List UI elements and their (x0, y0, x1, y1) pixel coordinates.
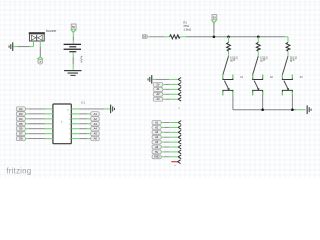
IC right pin 16 (71, 108, 79, 110)
IC U1 body (53, 104, 71, 144)
wire J1 pin 5 (161, 141, 164, 143)
wire J2 pin 4 (163, 93, 166, 95)
svg-text:D3: D3 (19, 112, 23, 116)
svg-text:GND: GND (154, 156, 160, 159)
wire switch down (291, 95, 293, 109)
bottom rail (233, 109, 296, 111)
wire J2 pin 2 (163, 83, 166, 85)
IC left pin 6 (45, 133, 53, 135)
ground GND5 (307, 105, 312, 114)
wire to label A3 (79, 123, 87, 125)
net label D7 (16, 132, 25, 136)
wire to label A4 (79, 128, 87, 130)
net node under buzzer (37, 57, 43, 64)
resistor R3 (256, 42, 260, 51)
svg-text:5V: 5V (213, 15, 216, 19)
ground GND4 (148, 75, 153, 84)
rail segments (214, 36, 229, 38)
svg-text:5V: 5V (72, 25, 75, 29)
IC right pin row 3 (71, 118, 79, 120)
net label D6 (16, 127, 25, 131)
net label A6 column B (152, 145, 161, 149)
svg-text:15: 15 (69, 114, 71, 116)
svg-text:IC1: IC1 (81, 100, 86, 104)
svg-text:10: 10 (69, 139, 71, 141)
IC left pin 5 (45, 128, 53, 130)
wire to label A1 (79, 113, 87, 115)
buzzer pin 1 (33, 41, 35, 47)
svg-text:220Ω: 220Ω (289, 56, 292, 62)
net label 5V column A (153, 82, 163, 86)
svg-text:J2: J2 (178, 108, 181, 110)
wire J1 pin 7 (161, 151, 164, 153)
resistor R1 (170, 35, 180, 39)
wire J1 pin 1 (161, 122, 164, 124)
net label A1 column A (153, 87, 163, 91)
wire power to battery (72, 32, 74, 36)
wire ground to buzzer (13, 46, 17, 48)
wire R1 to rail (180, 36, 186, 38)
R4 value labels (rotated) (289, 56, 297, 62)
pushbutton S2 (253, 56, 263, 95)
wire to label D6 (28, 128, 45, 130)
net label A2 column B (152, 125, 161, 129)
wire switch down (232, 95, 234, 109)
svg-text:13: 13 (69, 124, 71, 126)
svg-text:12: 12 (69, 129, 71, 131)
net label A6 (91, 136, 99, 140)
svg-text:D5: D5 (19, 122, 23, 126)
svg-text:D2: D2 (19, 107, 23, 111)
svg-text:buzzer: buzzer (46, 29, 57, 33)
svg-text:5V: 5V (155, 151, 158, 154)
IC left pin 2 (45, 113, 53, 115)
svg-text:S2: S2 (270, 76, 274, 79)
net label D4 (16, 117, 25, 121)
svg-text:A1: A1 (94, 112, 98, 116)
battery BT1 (64, 44, 81, 53)
wire to label D2 (28, 108, 45, 110)
junction bottom branch 3 (291, 108, 294, 111)
svg-text:D8: D8 (19, 137, 23, 141)
net label D2 (16, 107, 25, 111)
net label D8 (16, 137, 25, 141)
wire resistor to switch (287, 51, 289, 56)
net label D3 (16, 112, 25, 116)
net label A1 column B (152, 121, 161, 125)
wire resistor to switch (228, 51, 230, 56)
svg-text:D7: D7 (19, 132, 23, 136)
ground GND3 (110, 105, 115, 114)
power label 5V battery top (71, 24, 76, 32)
svg-text:A3: A3 (94, 122, 98, 126)
svg-text:11: 11 (69, 134, 71, 136)
wire switch down (262, 95, 264, 109)
net label A3 (91, 122, 99, 126)
IC right pin row 6 (71, 133, 79, 135)
pushbutton S1 (223, 56, 233, 95)
svg-text:A6: A6 (94, 137, 98, 141)
wire to label D5 (28, 123, 45, 125)
R3 value labels (rotated) (259, 56, 267, 62)
wire power down to rail (213, 23, 215, 33)
net label A5 (91, 131, 99, 135)
junction bottom branch 2 (261, 108, 264, 111)
svg-text:A2: A2 (94, 117, 98, 121)
wire to label A2 (79, 118, 87, 120)
svg-text:fritzing: fritzing (6, 167, 31, 176)
R2 value labels (rotated) (230, 56, 238, 62)
wire J1 pin 6 (161, 146, 164, 148)
IC right pin row 4 (71, 123, 79, 125)
svg-text:4xAA: 4xAA (80, 56, 84, 63)
wire buzzer pin2 down (39, 47, 41, 57)
resistor R2 (227, 42, 231, 51)
branch 2: wire rail to resistor (257, 37, 259, 43)
svg-text:220Ω: 220Ω (259, 56, 262, 62)
net label A3 column B (152, 130, 161, 134)
resistor R4 (286, 42, 290, 51)
wire battery to ground (72, 52, 74, 56)
power 5V top (212, 15, 217, 23)
IC left pin 3 (45, 118, 53, 120)
ground GND1 (9, 42, 14, 51)
IC right pin row 5 (71, 128, 79, 130)
net label A4 (91, 127, 99, 131)
wire J1 pin 2 (161, 126, 164, 128)
net label 5V column B (152, 150, 161, 154)
wire J1 pin 8 (161, 156, 164, 158)
svg-text:S1: S1 (240, 76, 244, 79)
svg-text:5V: 5V (156, 83, 159, 86)
wire to label D8 (28, 138, 45, 140)
svg-text:J1: J1 (174, 165, 177, 167)
net label A3 column A (153, 97, 163, 101)
ground GND2 under battery (64, 70, 81, 76)
wire to label D3 (28, 113, 45, 115)
junction branch 1 (227, 36, 230, 39)
net label D5 (16, 122, 25, 126)
svg-text:A4: A4 (94, 127, 98, 131)
svg-text:220Ω: 220Ω (230, 56, 233, 62)
IC left pin 1 (45, 108, 53, 110)
junction branch 2 (257, 36, 260, 39)
net label A2 column A (153, 92, 163, 96)
svg-text:D6: D6 (19, 127, 23, 131)
svg-text:14: 14 (69, 119, 71, 121)
pushbutton S3 (282, 56, 292, 95)
svg-text:1.5kΩ: 1.5kΩ (183, 28, 192, 32)
IC right pin row 7 (71, 138, 79, 140)
wire to label A6 (79, 138, 87, 140)
wire J2 pin 5 (163, 98, 166, 100)
buzzer pin 2 (39, 41, 41, 47)
wire J1 pin 4 (161, 136, 164, 138)
wire J2 pin 1 (152, 78, 156, 80)
wire pin16 to ground (79, 108, 104, 110)
svg-text:D4: D4 (19, 117, 23, 121)
svg-text:S3: S3 (300, 76, 304, 79)
branch 1: wire rail to resistor (228, 37, 230, 43)
buzzer BZ1 (29, 32, 45, 41)
net label left of R1 (142, 35, 147, 39)
svg-text:A5: A5 (94, 132, 98, 136)
wire J1 pin 3 (161, 131, 164, 133)
net label A2 (91, 117, 99, 121)
wire to label D4 (28, 118, 45, 120)
IC left pin 4 (45, 123, 53, 125)
wire J2 pin 3 (163, 88, 166, 90)
net label A4 column B (152, 135, 161, 139)
net label A5 column B (152, 140, 161, 144)
wire resistor to switch (257, 51, 259, 56)
net label A1 (91, 112, 99, 116)
red wire J1 pin 9 (171, 161, 177, 163)
net label GND column B (152, 155, 161, 159)
wire to label A5 (79, 133, 87, 135)
wire label to R1 (147, 36, 150, 38)
IC right pin row 2 (71, 113, 79, 115)
wire to label D7 (28, 133, 45, 135)
IC left pin 7 (45, 138, 53, 140)
junction power (213, 36, 216, 39)
branch 3: wire rail to resistor (287, 37, 289, 43)
